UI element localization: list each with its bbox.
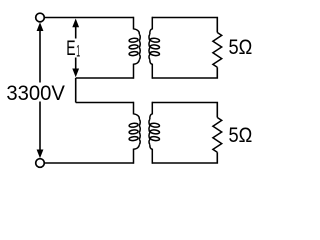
wire T2 primary top [76,102,134,104]
resistor R2 [213,118,222,153]
resistor R1 [213,33,222,68]
svg-text:E: E [66,37,75,60]
label E1 [66,37,80,60]
voltage arrow E1 [72,19,79,78]
terminal bottom [36,159,45,168]
transformer T2 primary winding [129,102,140,164]
transformer T1 secondary winding [149,17,160,79]
svg-text:5Ω: 5Ω [229,124,253,147]
svg-text:3300V: 3300V [6,82,65,105]
wire link (series link between primaries) [75,78,77,103]
wire bottom (T2 primary to source negative) [44,162,133,164]
wire top (source positive to T1 primary) [44,17,133,19]
wire middle (T1 primary bottom return) [76,77,134,79]
terminal top [36,13,45,22]
svg-text:5Ω: 5Ω [229,36,253,59]
wire T1 secondary loop [152,18,217,79]
svg-text:1: 1 [76,41,80,60]
transformer T1 primary winding [129,17,140,79]
transformer T2 secondary winding [149,102,160,164]
wire T2 secondary loop [152,103,217,164]
voltage arrow 3300V [37,22,44,158]
